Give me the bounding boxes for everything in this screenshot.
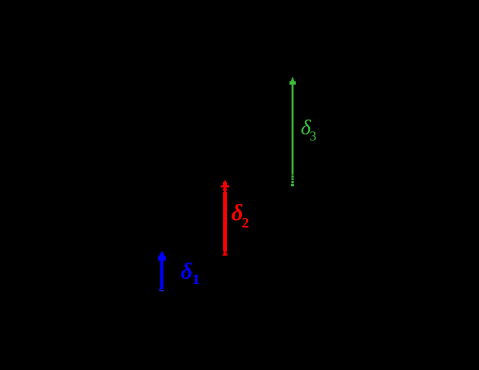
arrow delta2 (red displacement vector) — [221, 181, 229, 256]
arrow delta1 (blue displacement vector) — [158, 252, 166, 292]
svg-text:3: 3 — [310, 128, 317, 143]
svg-text:2: 2 — [242, 216, 249, 232]
arrow delta3 (green displacement vector) — [290, 78, 296, 187]
svg-text:1: 1 — [192, 271, 201, 288]
label delta_3 — [301, 115, 317, 143]
label delta_1 — [181, 259, 201, 288]
label delta_2 — [231, 201, 249, 232]
